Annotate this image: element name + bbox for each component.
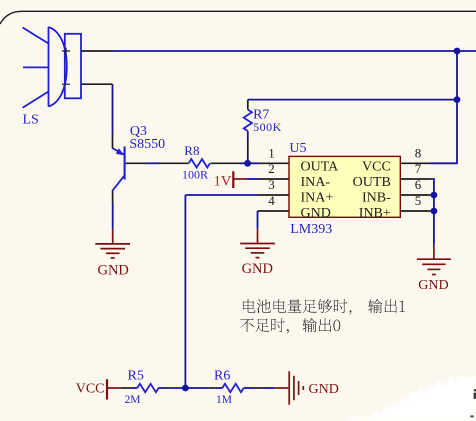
svg-text:LM393: LM393 [290, 222, 332, 237]
svg-text:6: 6 [415, 177, 422, 192]
svg-text:INA-: INA- [301, 175, 331, 190]
svg-text:100R: 100R [182, 167, 208, 181]
svg-text:INB+: INB+ [359, 206, 391, 221]
svg-text:R6: R6 [214, 369, 230, 384]
svg-text:GND: GND [97, 262, 128, 278]
svg-text:OUTA: OUTA [301, 160, 340, 175]
svg-text:8: 8 [415, 145, 422, 160]
svg-text:3: 3 [268, 177, 275, 192]
svg-text:R8: R8 [184, 143, 199, 158]
svg-text:GND: GND [301, 206, 331, 221]
svg-text:4: 4 [268, 193, 275, 208]
svg-text:VCC: VCC [76, 381, 105, 396]
svg-text:2: 2 [268, 161, 275, 176]
svg-text:1V: 1V [214, 173, 232, 189]
svg-text:GND: GND [242, 261, 273, 277]
svg-text:OUTB: OUTB [353, 175, 391, 190]
svg-text:R5: R5 [128, 369, 144, 384]
svg-text:LS: LS [23, 112, 39, 127]
svg-text:INA+: INA+ [301, 191, 334, 206]
svg-text:1: 1 [268, 145, 275, 160]
svg-text:U5: U5 [289, 141, 306, 156]
svg-text:5: 5 [415, 193, 422, 208]
svg-text:GND: GND [418, 278, 448, 293]
svg-text:1M: 1M [216, 394, 232, 406]
svg-text:VCC: VCC [362, 160, 391, 175]
svg-text:INB-: INB- [362, 191, 391, 206]
svg-text:7: 7 [415, 161, 422, 176]
svg-text:2M: 2M [125, 394, 141, 406]
svg-text:S8550: S8550 [129, 137, 165, 152]
svg-text:500K: 500K [253, 120, 282, 134]
svg-text:GND: GND [309, 382, 339, 397]
